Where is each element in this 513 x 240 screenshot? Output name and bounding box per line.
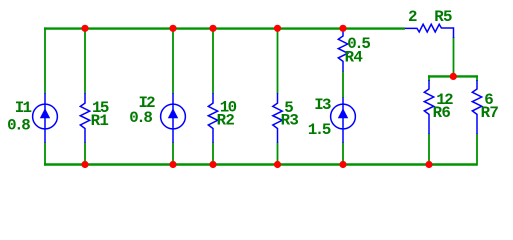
wire I2 top: [172, 29, 174, 94]
node dot bottom R3: [274, 161, 281, 168]
svg-text:R5: R5: [434, 8, 452, 26]
svg-text:2: 2: [408, 8, 417, 26]
node dot top R1: [81, 25, 88, 32]
current source I1: [33, 93, 58, 143]
wire R1 bottom: [84, 143, 86, 165]
node dot top R2: [209, 25, 216, 32]
wire R2 bottom: [212, 143, 214, 165]
node dot top R3: [274, 25, 281, 32]
svg-text:0.8: 0.8: [129, 109, 152, 127]
wire I2 bottom: [172, 143, 174, 165]
resistor R6: [424, 80, 433, 134]
wire R7 stub: [476, 75, 478, 81]
node dot split: [450, 73, 457, 80]
svg-text:R6: R6: [433, 104, 451, 122]
wire R2 top: [212, 29, 214, 94]
node dot bottom I2: [169, 161, 176, 168]
wire R3 top: [277, 29, 279, 94]
wire I1 bottom: [44, 143, 46, 166]
resistor R7: [472, 80, 481, 134]
node dot bottom I3: [339, 161, 346, 168]
node dot top I2: [169, 25, 176, 32]
node dot bottom R6: [425, 161, 432, 168]
resistor R3: [273, 93, 282, 143]
svg-text:R3: R3: [281, 112, 299, 130]
svg-text:R2: R2: [217, 112, 235, 130]
wire R6 bottom: [428, 134, 430, 165]
svg-text:0.8: 0.8: [7, 116, 30, 134]
wire split node horizontal: [428, 75, 478, 77]
wire left vertical (I1 branch top): [44, 27, 46, 93]
svg-text:R1: R1: [91, 112, 109, 130]
wire top horizontal: [44, 27, 405, 29]
node dot top R4: [339, 25, 346, 32]
current source I3: [331, 98, 356, 144]
node dot bottom R1: [81, 161, 88, 168]
wire bottom horizontal: [44, 163, 477, 165]
wire R4 to I3: [342, 71, 344, 98]
node dot bottom R2: [209, 161, 216, 168]
resistor R5: [405, 24, 454, 38]
wire R1 top: [84, 29, 86, 94]
resistor R4: [338, 29, 347, 72]
svg-text:1.5: 1.5: [308, 121, 331, 139]
resistor R2: [208, 93, 217, 143]
wire R3 bottom: [277, 143, 279, 165]
wire R7 bottom: [476, 134, 478, 166]
svg-text:I1: I1: [15, 99, 32, 117]
resistor R1: [80, 93, 89, 143]
svg-text:R4: R4: [345, 48, 364, 66]
wire I3 bottom: [342, 143, 344, 165]
wire right vertical below R5 corner: [453, 37, 455, 76]
svg-text:R7: R7: [481, 104, 499, 122]
wire R6 stub: [428, 75, 430, 81]
current source I2: [161, 93, 186, 143]
svg-text:I3: I3: [314, 96, 331, 114]
